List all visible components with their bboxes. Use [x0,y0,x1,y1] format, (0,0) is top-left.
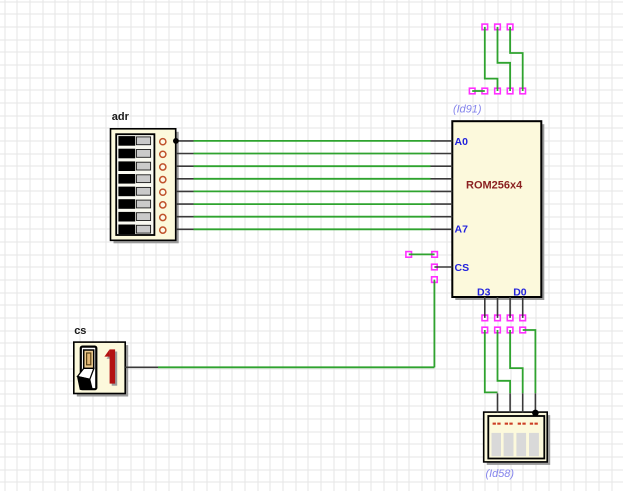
svg-text:A7: A7 [455,223,469,235]
port square Id91 bottom 2 [482,88,488,94]
svg-text:CS: CS [455,262,470,274]
port square D2 row1 [495,315,501,321]
port square D1 row1 [507,315,513,321]
switch adr (8x DIP switch) [111,129,179,244]
svg-text:D0: D0 [513,286,527,298]
wire stub ROM pin A6 [431,216,453,218]
port square Id91 top 3 [507,24,513,30]
wire stub adr pin 1 (dip switch output) [176,153,194,155]
wire stub ROM pin A0 [431,140,453,142]
wire stub ROM pin A2 [431,165,453,167]
wire net91-a (top port 1 to bottom port 3) [485,27,498,91]
wire stub ROM pin D3 [484,297,486,318]
svg-text:(Id58): (Id58) [486,468,514,480]
svg-text:D3: D3 [477,286,491,298]
junction dot at adr pin 0 [173,138,179,144]
wire stub ROM pin A1 [431,153,453,155]
wire stub display pin 3 [522,393,524,412]
wire stub ROM pin A5 [431,203,453,205]
port square Id91 top 1 [482,24,488,30]
wire adr7 to ROM A7 [194,228,431,230]
wire stub adr pin 6 (dip switch output) [176,216,194,218]
wire D3 to display pin 1 [485,330,498,392]
wire D0 to display pin 4 [523,330,536,393]
port square CS net b [432,252,438,258]
svg-text:(Id91): (Id91) [453,104,481,116]
wire CS net vertical [433,280,435,368]
wire between CS port squares [409,253,435,255]
svg-text:cs: cs [74,325,86,337]
wire stub adr pin 0 (dip switch output) [176,140,194,142]
svg-text:A0: A0 [455,136,469,148]
port square CS net d [432,277,438,283]
svg-text:ROM256x4: ROM256x4 [466,180,523,192]
wire stub ROM pin D0 [522,297,524,318]
wire adr0 to ROM A0 [194,140,431,142]
port square Id91 bottom 1 [469,88,475,94]
wire stub cs switch output [125,366,158,368]
wire stub adr pin 4 (dip switch output) [176,190,194,192]
port square D3 row1 [482,315,488,321]
port square Id91 bottom 5 [520,88,526,94]
wire stub ROM pin CS [434,266,452,268]
wire adr5 to ROM A5 [194,203,431,205]
wire stub display pin 2 [509,393,511,412]
wire stub adr pin 7 (dip switch output) [176,228,194,230]
port square D0 row1 [520,315,526,321]
wire stub ROM pin D2 [497,297,499,318]
switch cs (toggle input, value 1) [74,342,128,396]
port square D2 row2 [495,327,501,333]
wire stub ROM pin A7 [431,228,453,230]
wire net91-c (top port 3 to bottom port 5) [510,27,523,91]
wire net91-d (bottom port 1 to bottom port 2) [472,90,485,92]
ROM U1 ROM256x4 [452,121,544,300]
wire net91-b (top port 2 to bottom port 4) [498,27,511,91]
port square CS net a [406,252,412,258]
wire cs switch to CS port [158,366,434,368]
wire stub adr pin 3 (dip switch output) [176,178,194,180]
wire adr2 to ROM A2 [194,165,431,167]
port square CS net c [432,264,438,270]
wire stub display pin 4 [534,393,536,412]
wire adr6 to ROM A6 [194,216,431,218]
wire D1 to display pin 3 [510,330,523,393]
wire stub display pin 1 [497,393,499,412]
svg-text:adr: adr [112,111,130,123]
wire adr1 to ROM A1 [194,153,431,155]
port square Id91 top 2 [495,24,501,30]
wire D2 to display pin 2 [498,330,511,393]
junction dot at display pin 4 [532,410,539,417]
wire stub ROM pin A3 [431,178,453,180]
wire adr3 to ROM A3 [194,178,431,180]
port square D0 row2 [520,327,526,333]
port square D1 row2 [507,327,513,333]
display U2 hex display (Id58) [484,412,551,465]
port square D3 row2 [482,327,488,333]
wire stub adr pin 5 (dip switch output) [176,203,194,205]
port square Id91 bottom 3 [495,88,501,94]
port square Id91 bottom 4 [507,88,513,94]
wire stub adr pin 2 (dip switch output) [176,165,194,167]
wire stub ROM pin D1 [509,297,511,318]
wire stub ROM pin A4 [431,190,453,192]
wire adr4 to ROM A4 [194,190,431,192]
